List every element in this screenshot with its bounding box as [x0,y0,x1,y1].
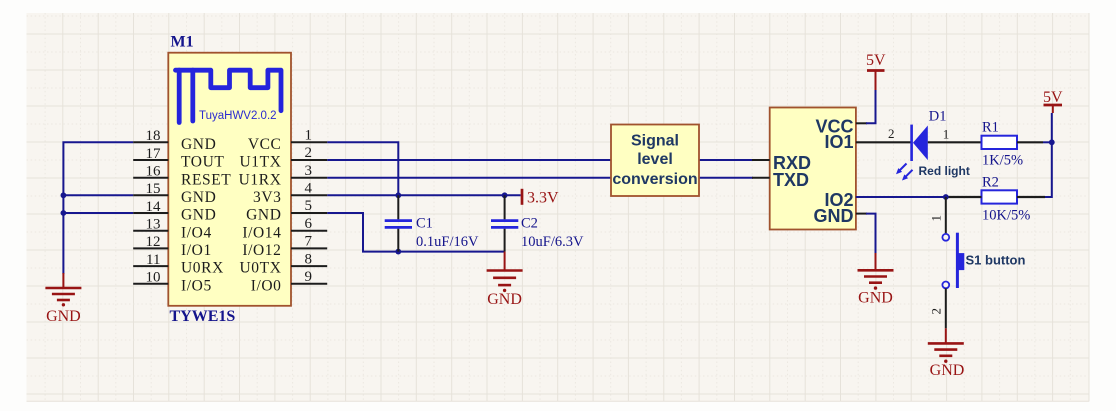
wire: R1 to 5V node [1017,141,1052,143]
svg-text:3.3V: 3.3V [527,190,559,207]
designator R1 [982,120,999,136]
svg-text:17: 17 [146,146,162,162]
svg-text:M1: M1 [171,34,194,51]
svg-text:5V: 5V [1043,89,1063,106]
svg-text:2: 2 [305,145,313,161]
svg-text:GND: GND [487,291,522,308]
designator M1 [171,34,194,51]
svg-text:2: 2 [888,126,895,141]
svg-text:5V: 5V [866,52,886,69]
pin 18 (GND) left stub [133,128,216,153]
svg-text:conversion: conversion [612,171,697,188]
junction 3V3/C2 [502,192,508,198]
svg-text:TuyaHWV2.0.2: TuyaHWV2.0.2 [199,110,277,122]
wire: VCC to 5V [866,90,876,123]
IC M1 body (TYWE1S module) [168,53,291,306]
block: MCU interface box [770,108,856,230]
svg-text:1K/5%: 1K/5% [982,153,1023,169]
junction IO2/S1 [943,194,949,200]
pin 11 (U0RX) left stub [133,252,224,277]
label TYWE1S [170,308,236,325]
wire: pin5 GND net to C1/C2 [327,213,504,252]
pin 16 (RESET) left stub [133,164,231,189]
pin 9 (I/O0) right stub [251,269,328,294]
svg-text:U1TX: U1TX [239,154,281,171]
power 3.3V [522,189,559,207]
S1 pin number 1 (rotated) [929,215,944,222]
svg-text:GND: GND [858,290,893,307]
svg-text:I/O4: I/O4 [181,224,212,241]
designator R2 [982,175,999,191]
svg-text:Red light: Red light [919,164,970,178]
label C2 [521,216,538,232]
svg-text:GND: GND [181,136,216,153]
svg-text:4: 4 [305,181,313,197]
junction at pin15 wire [61,192,67,198]
wire: IO1 to LED [856,141,911,143]
wire: pin3 to TXD [327,177,753,179]
svg-text:R1: R1 [982,120,999,136]
pin RXD stub [752,153,811,173]
svg-text:GND: GND [46,308,81,325]
capacitor C2 [491,195,518,251]
ground GND (left of M1) [45,273,81,325]
svg-text:11: 11 [146,252,160,268]
svg-text:6: 6 [305,216,313,232]
svg-text:12: 12 [146,234,161,250]
svg-text:I/O1: I/O1 [181,242,212,259]
S1 pin number 2 (rotated) [929,308,944,315]
svg-text:R2: R2 [982,175,999,191]
svg-text:10: 10 [146,270,161,286]
LED pin number 1 [943,127,950,142]
svg-text:9: 9 [305,269,313,285]
svg-text:10uF/6.3V: 10uF/6.3V [521,234,584,250]
pin 17 (TOUT) left stub [133,146,224,171]
svg-text:3: 3 [305,163,313,179]
value 10K/5% [982,207,1030,223]
wire: pin18/pin15/pin14 GND net (left) [63,142,133,274]
svg-text:TXD: TXD [773,170,809,190]
label C1 [416,216,433,232]
antenna graphic inside M1 [176,70,282,122]
svg-text:IO1: IO1 [824,132,853,152]
pin 7 (I/O12) right stub [242,234,327,259]
switch S1 [942,233,964,289]
wire: LED to R1 [928,141,982,143]
pin TXD stub [752,170,809,190]
svg-text:0.1uF/16V: 0.1uF/16V [416,234,479,250]
LED D1 [912,125,928,161]
junction R1/5V [1049,139,1055,145]
pin IO1 stub [824,132,853,152]
svg-text:C2: C2 [521,216,538,232]
label S1 button [966,252,1026,267]
junction at pin14 wire [61,210,67,216]
pin GND stub [814,206,868,226]
svg-text:18: 18 [146,128,161,144]
svg-text:S1 button: S1 button [966,252,1026,267]
svg-text:7: 7 [305,234,313,250]
pin 13 (I/O4) left stub [133,217,212,242]
wire: 5V down to R2 [1045,113,1052,197]
svg-text:GND: GND [930,362,965,379]
junction GND/C1 [395,249,401,255]
label Red light [919,164,970,178]
value 10uF/6.3V [521,234,584,250]
pin 5 (GND) right stub [246,198,327,223]
svg-text:13: 13 [146,217,161,233]
svg-text:3V3: 3V3 [253,189,282,206]
pin 14 (GND) left stub [133,199,216,224]
svg-text:D1: D1 [929,109,947,125]
wire: 3V3 net (pin4 to 3.3V symbol) [327,194,520,196]
svg-text:16: 16 [146,164,162,180]
svg-text:VCC: VCC [248,136,282,153]
power 5V (right) [1043,89,1063,113]
svg-text:U0RX: U0RX [181,260,224,277]
wire: junction down to S1 pin 1 [945,197,947,234]
svg-text:GND: GND [181,189,216,206]
svg-text:GND: GND [814,206,854,226]
pin 12 (I/O1) left stub [133,234,212,259]
svg-text:15: 15 [146,181,161,197]
resistor R2 [982,190,1018,203]
svg-text:I/O12: I/O12 [242,242,281,259]
svg-text:RESET: RESET [181,171,231,188]
pin 2 (U1TX) right stub [239,145,327,170]
svg-text:TOUT: TOUT [181,154,224,171]
wire: box GND down [866,214,876,253]
svg-text:U1RX: U1RX [239,171,282,188]
designator D1 [929,109,947,125]
svg-text:I/O0: I/O0 [251,277,282,294]
svg-text:level: level [637,151,673,168]
pin 8 (U0TX) right stub [239,251,327,276]
value 1K/5% [982,153,1023,169]
wire: S1 pin 2 down [945,288,947,328]
svg-text:1: 1 [943,127,950,142]
svg-text:14: 14 [146,199,162,215]
junction 3V3/C1 [395,192,401,198]
svg-text:10K/5%: 10K/5% [982,207,1030,223]
svg-text:GND: GND [246,207,281,224]
svg-text:I/O5: I/O5 [181,277,212,294]
pin 10 (I/O5) left stub [133,270,212,295]
resistor R1 [982,136,1018,149]
wire: IO2 net [856,196,982,198]
svg-text:2: 2 [929,308,944,315]
svg-text:U0TX: U0TX [239,260,281,277]
power 5V (above VCC) [866,52,886,90]
svg-text:1: 1 [305,128,313,144]
wire: pin2 to RXD [327,159,753,161]
pin VCC stub [815,116,867,136]
svg-text:TYWE1S: TYWE1S [170,308,236,325]
LED light arrows [896,164,913,181]
wire: R2 right stub [1017,196,1045,198]
wire: pin1 VCC to 3V3 net [327,142,398,195]
LED pin number 2 [888,126,895,141]
block: signal level conversion [611,125,699,197]
pin 6 (I/O14) right stub [242,216,327,241]
svg-text:1: 1 [929,215,944,222]
ground GND (below S1) [928,328,965,379]
pin 3 (U1RX) right stub [239,163,328,188]
ground GND (below interface box) [858,253,894,307]
svg-text:GND: GND [181,207,216,224]
svg-text:I/O14: I/O14 [242,224,281,241]
pin 15 (GND) left stub [133,181,216,206]
pin 4 (3V3) right stub [253,181,327,206]
value 0.1uF/16V [416,234,479,250]
svg-text:8: 8 [305,251,313,267]
pin IO2 stub [824,190,867,210]
capacitor C1 [385,195,412,251]
label TuyaHWV2.0.2 [199,110,277,122]
svg-text:Signal: Signal [631,133,679,150]
svg-text:5: 5 [305,198,313,214]
ground GND (below C2) [487,252,523,308]
svg-text:C1: C1 [416,216,433,232]
pin 1 (VCC) right stub [248,128,327,153]
